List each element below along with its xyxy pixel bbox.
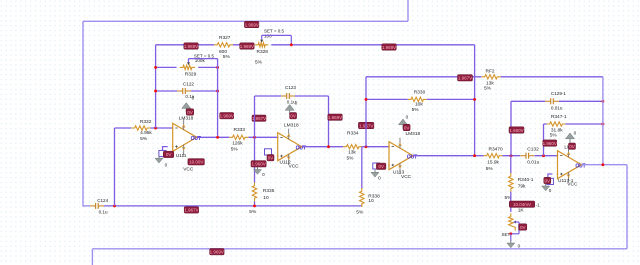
node R341 wiper junction	[509, 232, 512, 235]
svg-text:126k: 126k	[232, 141, 243, 147]
svg-text:U111: U111	[176, 153, 187, 159]
svg-text:0V: 0V	[404, 125, 410, 130]
svg-text:VCC: VCC	[401, 174, 412, 180]
voltage label 0V at U112 + input	[267, 155, 274, 161]
voltage label 1.967V stage2 input	[252, 115, 266, 121]
capacitor C124	[90, 198, 109, 215]
svg-text:600: 600	[219, 49, 227, 55]
wire C123 top row	[255, 95, 329, 97]
potentiometer R328 100	[255, 29, 285, 66]
svg-text:0: 0	[574, 130, 577, 135]
jumper box at U112 + input	[265, 149, 272, 155]
wire top feedback rail (net to off-screen top)	[83, 20, 408, 22]
resistor RF2 13k	[482, 69, 501, 92]
ground at U113 + input	[371, 170, 381, 181]
svg-text:R347-1: R347-1	[551, 114, 567, 120]
wire gain rail right vertical	[474, 45, 476, 156]
resistor R333 126k	[229, 127, 248, 153]
wire RF2 row	[366, 76, 603, 78]
node stage3 output junction	[473, 154, 476, 157]
svg-text:0: 0	[549, 188, 552, 193]
node R347-1 right junction	[601, 123, 604, 126]
svg-text:R332: R332	[140, 119, 152, 125]
wire stage3 output row	[413, 155, 558, 157]
node R332-feedback junction	[154, 127, 157, 130]
capacitor C123	[281, 85, 296, 104]
node stage1 output junction	[216, 136, 219, 139]
voltage label 1.969V stage2 output	[328, 114, 343, 120]
svg-text:0V: 0V	[378, 164, 384, 169]
svg-text:SET: SET	[502, 232, 511, 237]
svg-text:0.01u: 0.01u	[551, 105, 563, 110]
svg-text:R329: R329	[185, 71, 197, 77]
wire U117-1 non-inverting ground stub	[548, 174, 553, 178]
svg-text:0.01u: 0.01u	[527, 159, 539, 165]
svg-text:LM318: LM318	[179, 115, 194, 121]
voltage label 1.969V top rail right	[382, 44, 397, 50]
resistor R340-1 79k	[505, 173, 534, 201]
svg-text:RF2: RF2	[486, 69, 495, 75]
node C122 left junction	[154, 90, 157, 93]
svg-text:R330: R330	[414, 89, 426, 95]
svg-text:79k: 79k	[518, 184, 526, 190]
wire bottom output rail	[92, 248, 627, 250]
wire right outer vertical	[626, 165, 628, 249]
wire R341 wiper path	[511, 222, 519, 234]
svg-text:10.00V: 10.00V	[189, 160, 203, 165]
voltage label 1.960V	[543, 140, 557, 146]
wire R329 feedback row	[156, 66, 218, 68]
voltage label 0V at U117-1 + input	[544, 177, 551, 183]
svg-text:0V: 0V	[520, 225, 526, 230]
svg-text:R328: R328	[257, 49, 269, 55]
resistor R330 10k	[408, 89, 427, 112]
ground arrow above U113	[399, 115, 409, 129]
capacitor C129-1	[545, 91, 566, 111]
svg-text:C129-1: C129-1	[551, 91, 567, 96]
node R328 wiper junction	[290, 43, 293, 46]
resistor R327 600	[214, 35, 233, 60]
node C122 right junction	[216, 90, 219, 93]
svg-text:-1: -1	[536, 203, 540, 208]
svg-text:5%: 5%	[486, 166, 494, 172]
node R340 junction	[510, 154, 513, 157]
ground at U111 + input	[155, 156, 168, 168]
svg-text:15.9k: 15.9k	[487, 160, 499, 166]
voltage label 0V above U112	[290, 113, 297, 119]
svg-text:1.969V: 1.969V	[184, 44, 198, 49]
voltage label 1.969V stage1 feedback	[220, 113, 234, 119]
node R335 ground junction	[253, 204, 256, 207]
svg-text:1.969V: 1.969V	[328, 115, 342, 120]
voltage label 10.00V at U111 VCC	[188, 159, 205, 165]
node R330 right junction	[473, 98, 476, 101]
wire stage2 output row	[303, 146, 389, 148]
wire U113 non-inverting ground stub	[376, 164, 384, 165]
resistor R3470 15.9k	[484, 147, 503, 172]
svg-text:0: 0	[518, 244, 521, 249]
svg-text:4.95k: 4.95k	[140, 130, 152, 136]
wire R330 row	[366, 98, 475, 100]
wire stage1 output row	[197, 136, 278, 138]
svg-text:5%: 5%	[231, 147, 239, 153]
wire bottom rail left segment to C124	[83, 205, 90, 207]
op-amp U113 LM318	[388, 131, 420, 180]
voltage label 1.967V RF2 rail	[458, 75, 473, 81]
voltage label 0V above U113	[403, 124, 410, 130]
wire C123 left vertical	[254, 96, 256, 137]
voltage label 0V at U111 + input	[163, 151, 174, 157]
node C124-R332 junction	[113, 204, 116, 207]
svg-text:1.967V: 1.967V	[184, 208, 198, 213]
node C132-R347 junction	[542, 154, 545, 157]
svg-text:5%: 5%	[140, 136, 148, 142]
wire bottom-left vertical exiting bottom edge	[91, 249, 93, 265]
svg-text:0.1u: 0.1u	[99, 210, 108, 215]
wire stage4 feedback vertical	[602, 77, 604, 165]
voltage label 0V above U117-1	[569, 143, 576, 149]
svg-text:13k: 13k	[348, 150, 356, 156]
svg-text:0: 0	[378, 176, 381, 181]
ground arrow above U112	[285, 100, 298, 114]
wire R347-1 row	[544, 123, 603, 125]
wire R329 wiper path	[189, 59, 218, 63]
wire R338 shunt vertical	[361, 147, 363, 189]
svg-text:1.960V: 1.960V	[251, 162, 265, 167]
node R329 wiper junction	[216, 66, 219, 69]
svg-text:0: 0	[192, 95, 195, 100]
svg-text:5%: 5%	[550, 132, 558, 138]
node stage3 input junction	[365, 145, 368, 148]
ground below R341	[507, 241, 521, 249]
svg-text:R327: R327	[219, 35, 231, 41]
svg-text:C132: C132	[527, 147, 539, 153]
svg-text:10: 10	[263, 195, 269, 201]
svg-text:5%: 5%	[255, 60, 263, 66]
node C129-1 right junction	[601, 100, 604, 103]
svg-text:1K: 1K	[518, 207, 525, 213]
wire C122 feedback row	[156, 90, 218, 92]
svg-text:0: 0	[165, 162, 168, 167]
svg-text:1.969V: 1.969V	[382, 45, 396, 50]
ground arrow above U117-1	[566, 130, 577, 142]
potentiometer R329 100k	[180, 53, 215, 77]
ground at U112 + input	[254, 167, 266, 177]
svg-text:0: 0	[406, 115, 409, 120]
potentiometer R341 1K	[502, 207, 525, 237]
jumper box at U117-1 + input	[547, 178, 554, 184]
svg-text:VCC: VCC	[183, 167, 194, 173]
wire stage1 output feedback vertical	[217, 59, 219, 138]
svg-text:10k: 10k	[415, 102, 423, 108]
voltage label 1.660V	[509, 127, 524, 133]
jumper box at U111 + input	[159, 150, 166, 156]
wire C129-1 row	[511, 100, 603, 102]
svg-text:R334: R334	[347, 130, 359, 136]
wire stage4 output row	[582, 164, 628, 166]
svg-text:0: 0	[295, 100, 298, 105]
svg-text:0V: 0V	[545, 178, 551, 183]
wire C123 right vertical	[328, 96, 330, 147]
svg-text:R335: R335	[263, 188, 275, 194]
voltage label 1.969V bottom rail	[210, 249, 225, 255]
wire left outer vertical	[82, 21, 84, 206]
wire bottom ground rail	[104, 205, 362, 207]
wire R328 wiper path	[262, 35, 292, 44]
op-amp U111 LM318	[172, 115, 201, 172]
voltage label 1.967V ground rail	[184, 207, 199, 213]
voltage label 1.969V outer top rail	[244, 21, 259, 27]
svg-text:1.967V: 1.967V	[458, 76, 472, 81]
wire stage1 feedback vertical	[155, 45, 157, 128]
svg-text:C124: C124	[97, 198, 108, 203]
svg-text:1.969V: 1.969V	[220, 114, 234, 119]
wire vertical from C124 node up to R332 input	[114, 128, 116, 206]
svg-text:0: 0	[262, 172, 265, 177]
op-amp U112 LM318	[277, 123, 306, 170]
svg-text:C122: C122	[183, 81, 194, 86]
svg-text:R340-1: R340-1	[518, 177, 534, 183]
svg-text:0V: 0V	[166, 152, 172, 157]
voltage label 0V at U113 + input	[376, 163, 386, 169]
svg-text:LM318: LM318	[284, 123, 299, 129]
capacitor C132	[520, 147, 539, 166]
svg-text:VCC: VCC	[289, 164, 300, 170]
node stage4 output junction	[601, 163, 604, 166]
wire U111 non-inverting ground stub	[163, 147, 168, 151]
wire stage1 input row	[115, 127, 173, 129]
svg-text:5%: 5%	[356, 210, 364, 216]
ground at U117-1 + input	[542, 184, 552, 193]
wire U112 non-inverting ground stub	[268, 155, 273, 156]
svg-text:1.969V: 1.969V	[245, 22, 259, 27]
wire stage3 feedback vertical	[365, 77, 367, 147]
node R330 left junction	[365, 98, 368, 101]
ground arrow above U111	[182, 95, 195, 112]
svg-text:10: 10	[368, 198, 374, 204]
wire R341 to ground	[510, 234, 512, 241]
voltage label 10.04mV	[509, 201, 540, 208]
svg-text:R333: R333	[234, 127, 246, 133]
svg-text:0V: 0V	[290, 114, 296, 119]
svg-text:5%: 5%	[249, 209, 257, 215]
voltage label 0V at R341 wiper	[519, 224, 527, 230]
node stage2 input junction	[253, 136, 256, 139]
wire R340-1 to pot	[510, 192, 512, 212]
voltage label 1.969V top rail left	[184, 43, 199, 49]
wire R340-1 shunt upper	[510, 156, 512, 174]
voltage label 1.969V top rail mid	[240, 43, 255, 49]
svg-text:5%: 5%	[223, 54, 231, 60]
svg-text:0V: 0V	[569, 144, 575, 149]
jumper box at U113 + input	[373, 163, 380, 169]
resistor R334 13k	[343, 130, 362, 161]
svg-text:1.660V: 1.660V	[509, 128, 523, 133]
voltage label 1.960V at U112 + input	[251, 161, 266, 167]
svg-text:0V: 0V	[268, 156, 274, 161]
capacitor C122	[177, 81, 195, 99]
wire vertical stub exiting top edge	[407, 0, 409, 21]
voltage label 1.967V stage3 input	[358, 122, 374, 128]
svg-text:1.969V: 1.969V	[210, 250, 224, 255]
resistor R338 10	[356, 188, 380, 216]
svg-text:10.04mV: 10.04mV	[513, 202, 531, 207]
resistor R335 10	[249, 183, 274, 216]
svg-text:1.969V: 1.969V	[240, 44, 254, 49]
op-amp U117-1 LM318	[557, 144, 586, 187]
wire top gain rail	[156, 44, 475, 46]
svg-text:5%: 5%	[412, 107, 420, 113]
resistor R332	[131, 119, 152, 142]
node R329 left junction	[154, 66, 157, 69]
node stage2 output junction	[327, 145, 330, 148]
wire R347-1 left vertical	[543, 124, 545, 156]
svg-text:C123: C123	[285, 85, 296, 90]
svg-text:VCC: VCC	[567, 182, 578, 188]
svg-text:5%: 5%	[484, 85, 492, 91]
wire C129-1 left vertical	[510, 101, 512, 155]
svg-text:LM318: LM318	[406, 131, 421, 137]
resistor R347-1 31.8k	[547, 114, 567, 138]
svg-text:1.960V: 1.960V	[543, 141, 557, 146]
wire R335 shunt vertical	[254, 137, 256, 206]
svg-text:5%: 5%	[347, 155, 355, 161]
svg-text:R3470: R3470	[489, 147, 503, 153]
voltage label 0V above U111	[186, 109, 194, 115]
svg-text:0V: 0V	[187, 110, 193, 115]
